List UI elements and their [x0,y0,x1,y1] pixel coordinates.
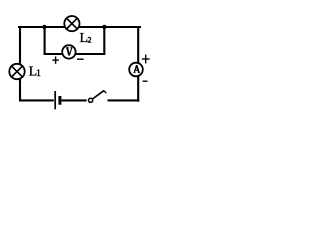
svg-text:2: 2 [88,36,92,45]
svg-text:1: 1 [36,68,41,78]
